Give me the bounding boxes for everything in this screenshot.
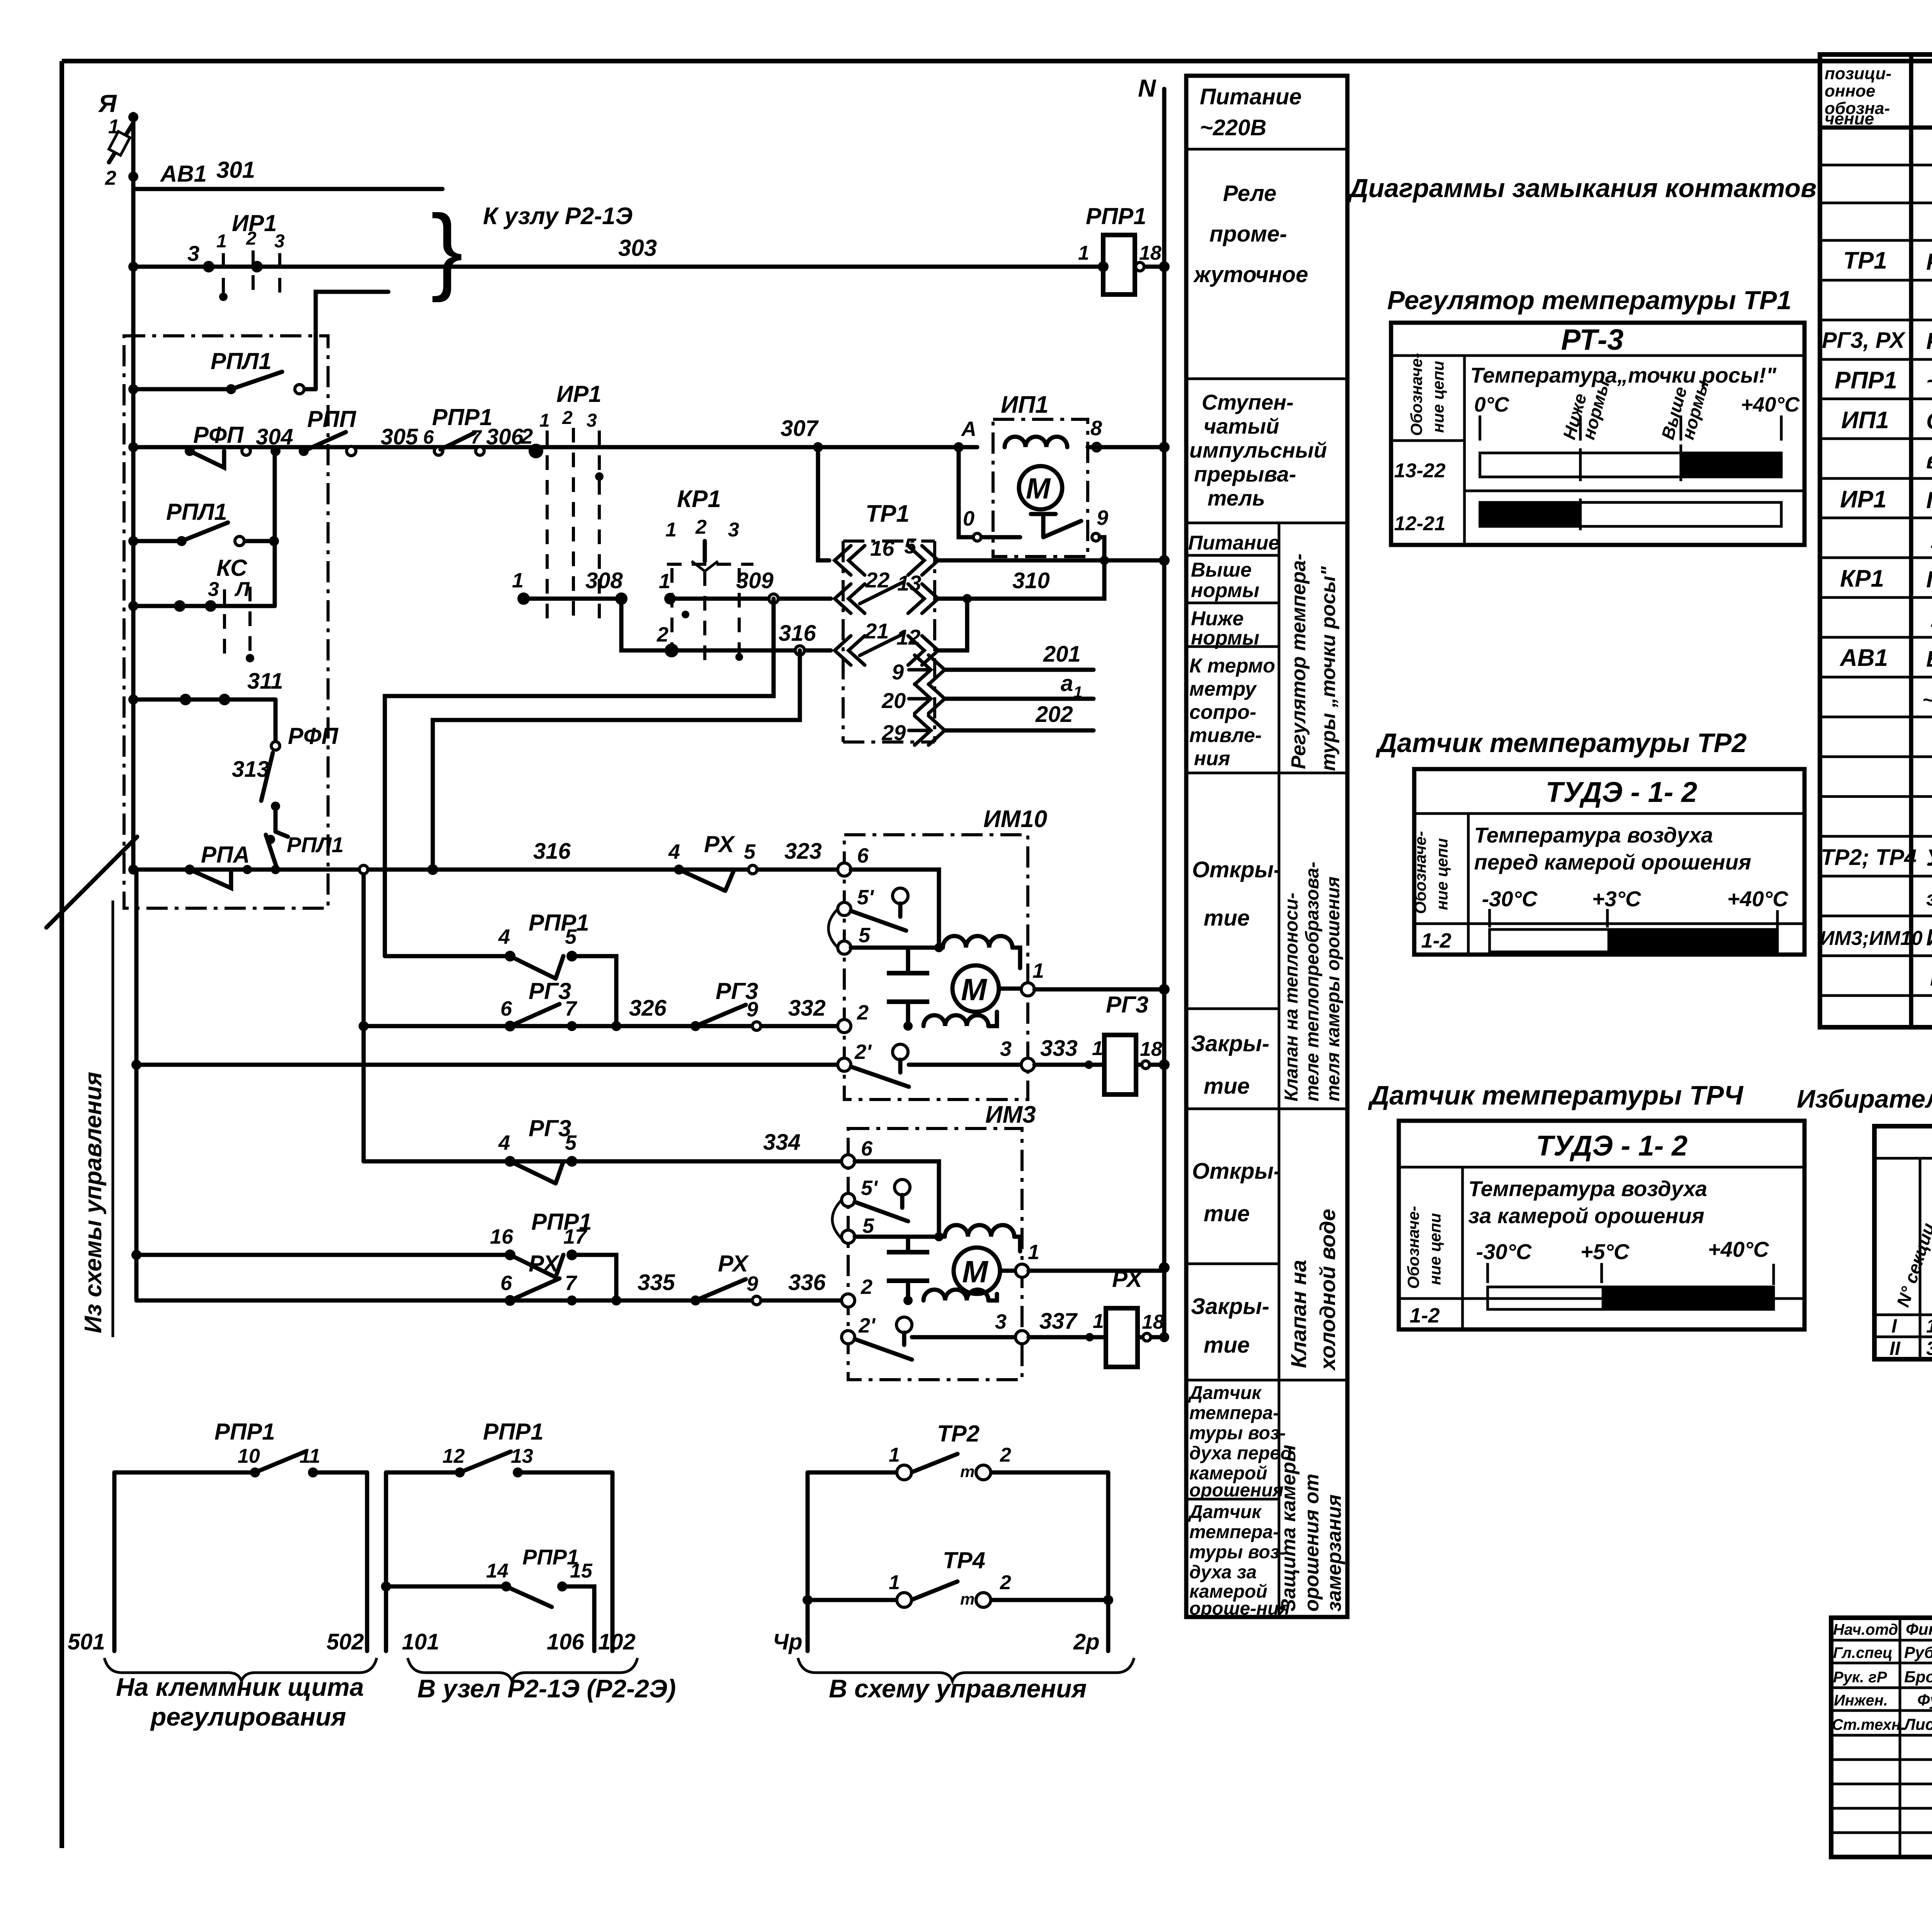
legend: Открытие (2) — [1192, 1159, 1281, 1226]
svg-text:РПР1: РПР1 — [1086, 203, 1146, 229]
svg-text:7: 7 — [565, 997, 578, 1020]
svg-text:РПА: РПА — [201, 842, 250, 868]
ИМ3 pin 5 and winding — [832, 1200, 1020, 1251]
relay coil РПР1 (right, on wire 303) — [1078, 203, 1164, 294]
svg-text:1: 1 — [1092, 1037, 1103, 1060]
table row КР1 — [1840, 565, 1932, 592]
svg-text:+40°С: +40°С — [1708, 1237, 1769, 1261]
svg-text:101: 101 — [402, 1629, 439, 1654]
svg-text:18: 18 — [1140, 1038, 1162, 1060]
svg-text:337: 337 — [1039, 1309, 1078, 1334]
wire: neutral rail N vertical — [1162, 89, 1167, 1337]
svg-text:Регулятор температуры ТР1: Регулятор температуры ТР1 — [1387, 286, 1791, 315]
ИМ3 motor М — [954, 1241, 1039, 1294]
contact РПЛ1 (row b) — [128, 499, 275, 546]
wire: link 306-row down to РПЛ1 row b and КС row — [273, 451, 277, 606]
svg-text:323: 323 — [784, 839, 822, 864]
svg-text:5: 5 — [859, 924, 871, 947]
svg-text:метру: метру — [1189, 678, 1257, 700]
svg-text:духа перед: духа перед — [1189, 1443, 1292, 1464]
wire 307 branch down to ТР1 — [818, 447, 829, 560]
svg-text:туры воз-: туры воз- — [1189, 1423, 1286, 1443]
svg-text:нормы: нормы — [1191, 627, 1259, 649]
svg-text:РПЛ1: РПЛ1 — [166, 499, 227, 525]
svg-text:~220В; 4з+4р ТУ16-523. 4: ~220В; 4з+4р ТУ16-523. 457-74 — [1926, 368, 1932, 394]
svg-text:5': 5' — [857, 886, 874, 909]
svg-text:АВ1: АВ1 — [1839, 645, 1888, 671]
svg-text:ИМ3: ИМ3 — [985, 1101, 1036, 1128]
svg-text:РПР1: РПР1 — [214, 1419, 275, 1445]
svg-text:14: 14 — [486, 1560, 509, 1582]
svg-text:5: 5 — [862, 1214, 874, 1237]
svg-text:9: 9 — [1097, 506, 1108, 529]
svg-text:чатый: чатый — [1204, 414, 1279, 438]
svg-text:~220В Эн=1,6А Эотс=1,3Эн: ~220В Эн=1,6А Эотс=1,3Эн ТУ16-522. 110-7… — [1922, 689, 1932, 711]
svg-text:ватель СИП-01М ТУ50.: ватель СИП-01М ТУ50. 108-77 — [1926, 448, 1932, 473]
table row ИР1 — [1840, 486, 1932, 513]
circuit 2: РПР1 contacts to unit Р2-1Э — [381, 1419, 636, 1654]
diagram table РТ-3 — [1391, 323, 1804, 545]
svg-text:16: 16 — [490, 1225, 514, 1248]
contact РФП (vertical chain) — [261, 700, 339, 801]
wire 310 — [938, 556, 1109, 603]
svg-text:1: 1 — [1926, 1315, 1932, 1337]
svg-text:11: 11 — [299, 1445, 320, 1467]
svg-text:}: } — [431, 195, 463, 303]
svg-text:12-21: 12-21 — [1394, 512, 1446, 535]
ИМ10 pin 5 and motor winding — [828, 909, 1020, 968]
svg-text:305: 305 — [381, 424, 418, 449]
svg-text:РПП: РПП — [307, 406, 357, 432]
contact КС — [133, 555, 275, 662]
ИМ3 pin 6 — [842, 1137, 939, 1237]
svg-text:332: 332 — [788, 996, 826, 1021]
switch ИР1 deck 2 — [520, 381, 604, 622]
ИМ10 pin 5' and lamp — [838, 886, 908, 931]
svg-text:Откры-: Откры- — [1192, 857, 1281, 882]
wire 311 — [133, 669, 283, 705]
svg-text:онное: онное — [1825, 82, 1875, 100]
table header texts — [1825, 64, 1932, 128]
svg-text:N: N — [1138, 74, 1156, 102]
table row 220В — [1922, 684, 1932, 711]
svg-text:6: 6 — [861, 1137, 873, 1160]
svg-text:2: 2 — [695, 516, 707, 538]
ТР1 output 20 / wire а1 — [881, 671, 1094, 713]
svg-text:307: 307 — [781, 416, 819, 441]
svg-text:Из схемы управления: Из схемы управления — [80, 1072, 107, 1333]
table row УП5311-С225 — [1930, 526, 1932, 553]
svg-text:1-2: 1-2 — [1421, 929, 1451, 952]
svg-text:ТР4: ТР4 — [943, 1547, 985, 1573]
brace to К узлу Р2-1Э — [431, 195, 633, 303]
ИМ10 pin 2 and lower winding — [838, 1001, 997, 1033]
legend: Датчик температуры воздуха за камерой орошения — [1188, 1502, 1290, 1619]
svg-text:Регулятор темпера-: Регулятор темпера- — [1287, 553, 1310, 769]
svg-text:туры „точки росы": туры „точки росы" — [1317, 566, 1340, 771]
svg-text:орошения: орошения — [1189, 1480, 1284, 1501]
ТР1 contact 21-12 — [835, 599, 967, 665]
svg-text:1: 1 — [539, 410, 550, 431]
svg-text:1: 1 — [512, 569, 524, 592]
svg-text:КР1: КР1 — [1840, 565, 1884, 592]
svg-text:темпера-: темпера- — [1189, 1522, 1279, 1542]
svg-text:6: 6 — [423, 426, 434, 448]
svg-text:сопро-: сопро- — [1189, 701, 1256, 723]
svg-text:6: 6 — [500, 1271, 512, 1295]
svg-text:Реле: Реле — [1223, 181, 1276, 206]
table row ТР1 — [1843, 247, 1932, 275]
ИМ3 pin1 wire to N — [1029, 1269, 1164, 1273]
ИМ3 pin 5' and lamp — [842, 1176, 910, 1221]
svg-text:туры воз-: туры воз- — [1189, 1542, 1286, 1562]
svg-text:проме-: проме- — [1209, 221, 1287, 247]
svg-text:2: 2 — [1000, 1571, 1011, 1594]
svg-text:7: 7 — [471, 426, 482, 448]
svg-text:К узлу Р2-1Э: К узлу Р2-1Э — [483, 203, 633, 230]
svg-text:333: 333 — [1040, 1036, 1078, 1061]
wire 337 and relay coil РХ — [1029, 1266, 1169, 1367]
svg-text:+40°С: +40°С — [1741, 393, 1800, 416]
svg-text:а: а — [1061, 671, 1073, 696]
legend rotated: Клапан на холодной воде — [1286, 1209, 1340, 1371]
ТР1 contact 22-13 — [835, 568, 938, 613]
svg-text:ТУДЭ - 1- 2: ТУДЭ - 1- 2 — [1546, 776, 1697, 808]
brace circuit 2 — [408, 1658, 638, 1681]
svg-text:В узел Р2-1Э (Р2-2Э): В узел Р2-1Э (Р2-2Э) — [417, 1674, 676, 1703]
svg-text:I: I — [1891, 1315, 1897, 1337]
arrow from control circuit — [46, 837, 137, 928]
svg-text:1: 1 — [1078, 242, 1089, 264]
interrupter ИП1 — [954, 391, 1164, 560]
svg-text:106: 106 — [547, 1629, 585, 1654]
ИМ10 pin 2' lamp and contact — [838, 1037, 1034, 1087]
svg-text:ТР2; ТР4: ТР2; ТР4 — [1821, 845, 1917, 870]
svg-text:М: М — [1026, 472, 1051, 505]
svg-text:Датчик: Датчик — [1188, 1502, 1262, 1522]
svg-text:ороше-ния: ороше-ния — [1189, 1598, 1290, 1619]
svg-text:5: 5 — [565, 925, 577, 948]
legend rotated: Защита камеры орошения от замерзания — [1277, 1445, 1345, 1612]
svg-text:Переключатель универсальный: Переключатель универсальный — [1926, 567, 1932, 592]
svg-text:КС: КС — [216, 555, 248, 581]
contact РПЛ1 (chain) — [266, 832, 344, 869]
svg-text:5: 5 — [744, 840, 756, 863]
svg-text:Защита камеры: Защита камеры — [1277, 1445, 1300, 1612]
diagram table ТУДЭ-1-2 (ТР4) — [1399, 1121, 1804, 1329]
svg-text:орошения от: орошения от — [1301, 1474, 1323, 1612]
wire 316 row into ТР1 — [672, 621, 831, 655]
svg-text:II: II — [1889, 1338, 1901, 1359]
brace circuit 1 — [104, 1658, 377, 1681]
svg-text:29: 29 — [881, 720, 906, 745]
svg-text:Лисикина: Лисикина — [1903, 1715, 1932, 1733]
circuit 3: sensors ТР2 / ТР4 to control circuit — [773, 1421, 1113, 1654]
table row АВ1 — [1839, 645, 1932, 672]
svg-text:21: 21 — [864, 619, 889, 643]
svg-text:Температура„точки росы!": Температура„точки росы!" — [1470, 363, 1777, 387]
vertical V_a feed — [134, 870, 139, 1300]
svg-text:РГ3, РХ: РГ3, РХ — [1822, 328, 1906, 353]
svg-text:Питание: Питание — [1188, 532, 1279, 554]
selector КР1 decks — [656, 486, 753, 664]
svg-text:311: 311 — [247, 669, 283, 694]
svg-text:4: 4 — [498, 1131, 510, 1154]
svg-text:3: 3 — [274, 231, 285, 252]
legend: Закрытие (1) — [1191, 1031, 1269, 1099]
svg-text:На клеммник щита: На клеммник щита — [116, 1673, 364, 1701]
contact РПР1 4-5 row — [385, 910, 616, 1026]
thermostat ТР1 box — [843, 500, 935, 742]
ИМ3 pin 2' lamp and contact — [842, 1310, 1029, 1360]
svg-text:Исполнительный механизм: Исполнительный механизм — [1926, 924, 1932, 950]
svg-text:М: М — [962, 1254, 989, 1289]
svg-text:Избиратель регулирования ИР1: Избиратель регулирования ИР1 — [1797, 1084, 1932, 1113]
svg-text:нормы: нормы — [1191, 579, 1259, 602]
svg-text:Обозначе-: Обозначе- — [1411, 831, 1429, 914]
brace circuit 3 — [798, 1658, 1134, 1681]
svg-text:Клапан на: Клапан на — [1286, 1260, 1311, 1368]
svg-text:ИР1: ИР1 — [1840, 486, 1886, 513]
svg-text:3: 3 — [587, 410, 597, 431]
svg-text:201: 201 — [1043, 642, 1081, 667]
svg-text:16: 16 — [870, 536, 895, 560]
svg-text:Выше: Выше — [1191, 559, 1252, 581]
svg-text:Бронштейн: Бронштейн — [1904, 1668, 1932, 1686]
svg-text:РПР1: РПР1 — [1835, 367, 1897, 394]
legend column frame — [1186, 76, 1347, 1617]
svg-text:9: 9 — [892, 660, 904, 684]
svg-text:8: 8 — [1090, 417, 1102, 440]
svg-text:316: 316 — [533, 839, 571, 864]
diagram table ТУДЭ-1-2 (ТР2) — [1411, 769, 1804, 955]
svg-text:ТУДЭ - 1- 2: ТУДЭ - 1- 2 — [1536, 1130, 1687, 1162]
svg-text:2: 2 — [656, 623, 668, 646]
table row ИМ3 ИМ10 — [1820, 924, 1932, 950]
svg-text:13: 13 — [511, 1445, 533, 1467]
svg-text:ТР2: ТР2 — [937, 1421, 980, 1447]
svg-text:335: 335 — [638, 1270, 675, 1295]
svg-text:Чр: Чр — [773, 1629, 803, 1654]
svg-text:Рубчинский: Рубчинский — [1904, 1643, 1932, 1661]
svg-text:Гл.спец: Гл.спец — [1833, 1644, 1893, 1661]
svg-text:102: 102 — [598, 1629, 636, 1654]
svg-text:6: 6 — [500, 997, 512, 1020]
svg-text:304: 304 — [256, 424, 293, 449]
table row СИП-01М — [1926, 446, 1932, 473]
svg-text:1: 1 — [1073, 683, 1082, 701]
ИМ3 capacitor — [887, 1237, 929, 1300]
actuator ИМ10 box — [844, 806, 1047, 1100]
svg-text:5: 5 — [565, 1131, 577, 1154]
svg-text:1: 1 — [1093, 1310, 1104, 1333]
svg-text:2: 2 — [857, 1001, 869, 1024]
wire: rail to ИМ10 pin 2' — [136, 1063, 844, 1067]
svg-text:502: 502 — [327, 1629, 364, 1654]
svg-text:РПЛ1: РПЛ1 — [287, 832, 344, 857]
circuit 1: РПР1 aux contact to terminal strip — [68, 1419, 367, 1654]
table row УП5311-Я225 — [1930, 605, 1932, 632]
svg-text:Температура воздуха: Температура воздуха — [1474, 823, 1713, 847]
table row ИП1 — [1841, 407, 1932, 434]
svg-text:прерыва-: прерыва- — [1194, 462, 1296, 486]
legend: Открытие (1) — [1192, 857, 1281, 931]
switch position table УП5311-С225 — [1874, 1126, 1932, 1359]
svg-text:РХ: РХ — [529, 1251, 560, 1277]
contact РГ3 4-5 / wire 334 row — [364, 1115, 848, 1183]
svg-text:импульсный: импульсный — [1189, 438, 1327, 462]
wire 309 row into ТР1 — [670, 568, 831, 603]
svg-text:2': 2' — [854, 1040, 872, 1064]
svg-text:за камерой орошения: за камерой орошения — [1468, 1203, 1704, 1228]
svg-text:Фукс: Фукс — [1917, 1691, 1932, 1709]
wire from bracket lower arm down to РПЛ1 row — [316, 292, 388, 389]
contact РХ 6-7 / wire 335 / contact РХ 8-9 / wire 336 row — [136, 1251, 848, 1306]
svg-text:2: 2 — [105, 167, 116, 189]
svg-text:тивле-: тивле- — [1189, 724, 1262, 747]
svg-text:тие: тие — [1204, 1201, 1250, 1226]
wire 301 — [133, 157, 442, 189]
svg-text:Переключатель универсальный: Переключатель универсальный — [1926, 487, 1932, 513]
svg-text:1: 1 — [889, 1571, 900, 1594]
svg-text:18: 18 — [1142, 1311, 1164, 1333]
contact РПР1 16-17 row — [136, 1209, 616, 1300]
svg-text:темпера-: темпера- — [1189, 1403, 1279, 1423]
svg-text:чение: чение — [1825, 109, 1874, 128]
svg-text:310: 310 — [1012, 568, 1050, 593]
svg-text:ТР1: ТР1 — [866, 500, 910, 527]
svg-text:3: 3 — [1000, 1037, 1012, 1060]
signature table texts — [1832, 1620, 1932, 1733]
svg-text:13-22: 13-22 — [1394, 460, 1446, 482]
svg-text:-30°С: -30°С — [1482, 887, 1538, 911]
legend rotated: Клапан на теплоносителе теплопреобразователя камеры орошения — [1281, 862, 1344, 1101]
svg-text:+5°С: +5°С — [1580, 1239, 1630, 1264]
svg-text:Рук. гР: Рук. гР — [1833, 1669, 1887, 1686]
svg-text:1: 1 — [889, 1444, 900, 1466]
svg-text:5': 5' — [861, 1176, 878, 1200]
wire 333 and relay coil РГ3 — [1034, 992, 1164, 1094]
ИМ10 capacitor — [887, 948, 929, 1026]
svg-text:Откры-: Откры- — [1192, 1159, 1281, 1184]
contact РПР1 6-7 — [423, 404, 493, 455]
svg-text:2: 2 — [246, 228, 257, 249]
svg-text:15: 15 — [570, 1560, 593, 1582]
svg-text:1: 1 — [1032, 959, 1044, 982]
svg-text:Фингер: Фингер — [1906, 1620, 1932, 1638]
title block frame — [1831, 1618, 1932, 1857]
svg-text:тель: тель — [1207, 486, 1265, 510]
svg-text:А: А — [961, 417, 976, 441]
actuator ИМ3 box — [848, 1101, 1036, 1380]
svg-text:Регулятор температуры электри: Регулятор температуры электрический — [1926, 249, 1932, 275]
table row РПР1 — [1835, 367, 1932, 394]
legend: Питание / Выше нормы / Ниже нормы / К термометру сопротивления — [1188, 532, 1279, 770]
svg-text:2': 2' — [858, 1314, 876, 1337]
svg-text:УП5311-С225 ТУ16-524.: УП5311-С225 ТУ16-524. 074-75 — [1930, 528, 1932, 553]
svg-text:313: 313 — [232, 757, 269, 782]
breaker AB1 — [105, 116, 207, 189]
wire 303 — [133, 235, 1103, 272]
svg-text:1: 1 — [665, 519, 677, 541]
wire W2: 316 loop down to РПА row — [433, 650, 800, 870]
table row РГ3 РХ — [1822, 328, 1932, 354]
component list table grid — [1820, 54, 1932, 1027]
svg-text:303: 303 — [618, 235, 657, 261]
svg-text:301: 301 — [216, 157, 255, 183]
svg-text:10: 10 — [238, 1445, 260, 1467]
ИМ10 pin 6 — [838, 844, 939, 948]
svg-text:МЭО-0,63/63-0,25 ТУ1-01: МЭО-0,63/63-0,25 ТУ1-01. 0321-75 — [1930, 966, 1932, 990]
contact РХ 4-5 (upper) — [668, 831, 757, 891]
svg-text:7: 7 — [565, 1271, 578, 1295]
svg-text:РХ: РХ — [704, 831, 736, 857]
contact РПП — [299, 406, 357, 456]
svg-text:замерзания: замерзания — [1323, 1494, 1345, 1612]
vertical V_b feed — [362, 870, 366, 1161]
dashed cabinet boundary box — [124, 336, 328, 908]
svg-text:ИП1: ИП1 — [1001, 391, 1049, 418]
legend: Закрытие (2) — [1191, 1294, 1269, 1358]
svg-text:ТР1: ТР1 — [1843, 247, 1887, 274]
table row МЭО — [1930, 963, 1932, 990]
wire: phase rail Я vertical — [131, 114, 136, 870]
svg-text:17: 17 — [563, 1225, 588, 1248]
svg-text:К термо: К термо — [1189, 655, 1275, 677]
svg-text:Датчик температуры ТРЧ: Датчик температуры ТРЧ — [1368, 1080, 1743, 1110]
contact РГ3 6-7 / wire 326 / contact РГ3 8-9 / wire 332 row — [364, 978, 844, 1031]
svg-text:Закры-: Закры- — [1191, 1294, 1269, 1319]
svg-text:тие: тие — [1204, 905, 1250, 931]
svg-text:4: 4 — [498, 925, 510, 948]
svg-text:316: 316 — [779, 621, 816, 646]
svg-text:тие: тие — [1204, 1333, 1250, 1358]
svg-text:-30°С: -30°С — [1476, 1239, 1532, 1264]
svg-text:регулирования: регулирования — [150, 1702, 346, 1731]
svg-text:~220В: ~220В — [1200, 115, 1267, 140]
svg-text:4: 4 — [668, 840, 680, 863]
switch ИР1 deck 1 — [187, 210, 285, 301]
svg-text:1-2: 1-2 — [1410, 1304, 1440, 1327]
svg-text:+3°С: +3°С — [1592, 887, 1641, 911]
svg-text:Ступенчатый импульсный преры-: Ступенчатый импульсный преры- — [1926, 408, 1932, 434]
svg-text:3: 3 — [1926, 1338, 1932, 1359]
svg-text:РФП: РФП — [193, 422, 244, 448]
wire 304/305/306/307 row — [133, 445, 977, 449]
svg-text:326: 326 — [629, 996, 667, 1021]
wire 308 — [512, 568, 665, 650]
ТР1 output 9 / wire 201 — [892, 642, 1094, 684]
svg-text:Реле промежуточное. ПЭ-21-593: Реле промежуточное. ПЭ-21-593; — [1926, 328, 1932, 354]
svg-text:2: 2 — [1000, 1444, 1011, 1466]
svg-text:Обозначе-: Обозначе- — [1404, 1206, 1422, 1289]
legend: Питание ~220В — [1200, 84, 1302, 140]
contact РФП (row) — [185, 422, 250, 468]
ИМ3 pin 2 and lower winding — [842, 1275, 997, 1307]
svg-text:22: 22 — [865, 568, 889, 592]
svg-text:3: 3 — [187, 241, 199, 266]
svg-text:2р: 2р — [1073, 1629, 1100, 1654]
svg-text:КР1: КР1 — [677, 486, 721, 512]
svg-text:духа за: духа за — [1189, 1562, 1257, 1583]
svg-text:РПР1: РПР1 — [483, 1419, 544, 1445]
svg-text:РХ: РХ — [718, 1251, 750, 1277]
svg-text:20: 20 — [881, 688, 906, 713]
svg-text:РХ: РХ — [1112, 1266, 1144, 1292]
label Из схемы управления (rotated) — [80, 900, 113, 1337]
svg-text:теля камеры орошения: теля камеры орошения — [1323, 877, 1344, 1101]
svg-text:202: 202 — [1035, 702, 1073, 727]
